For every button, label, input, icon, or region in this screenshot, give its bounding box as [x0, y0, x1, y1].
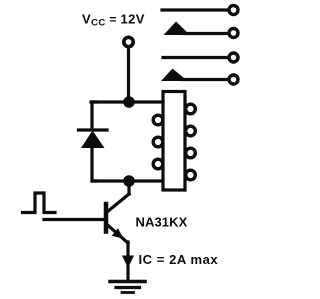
wire VCC terminal to top node — [127, 48, 130, 101]
current direction arrow IC — [122, 256, 134, 269]
relay coil K1 body — [163, 92, 185, 191]
wire diode branch upper — [92, 102, 96, 128]
ground bar 1 — [110, 280, 145, 284]
contact set 1 fixed contact wire — [162, 8, 228, 11]
transistor Q1 base bar — [104, 204, 109, 232]
wire top rail — [91, 100, 163, 103]
wire base input — [44, 218, 104, 221]
transistor Q1 emitter — [108, 225, 129, 243]
wire bottom rail — [92, 179, 162, 182]
junction bottom node — [123, 175, 135, 187]
transistor Q1 collector — [107, 194, 129, 212]
VCC terminal — [124, 37, 133, 46]
relay coil K1 loop right 4 — [186, 170, 196, 180]
diode D1 cathode bar — [79, 128, 108, 131]
relay coil K1 loop right 1 — [186, 104, 196, 114]
input pulse symbol — [23, 193, 56, 213]
contact set 2 fixed terminal — [229, 53, 238, 62]
relay coil K1 loop left 2 — [153, 137, 163, 147]
wire collector stub — [127, 184, 130, 194]
relay coil K1 loop right 3 — [186, 148, 196, 158]
junction top node — [123, 96, 135, 108]
contact set 1 armature wire — [184, 32, 228, 35]
contact set 1 fixed terminal — [229, 6, 238, 15]
diode D1 anode triangle — [81, 131, 105, 149]
contact set 2 armature triangle — [161, 69, 188, 82]
svg-text:NA31KX: NA31KX — [136, 215, 188, 230]
contact set 2 armature terminal — [229, 75, 238, 84]
relay coil K1 loop right 2 — [186, 126, 196, 136]
svg-text:IC = 2A max: IC = 2A max — [139, 252, 219, 267]
relay coil K1 loop left 1 — [153, 115, 163, 125]
ground bar 2 — [116, 286, 140, 289]
wire to ground — [126, 265, 129, 281]
contact set 1 armature triangle — [164, 22, 191, 36]
wire diode branch lower — [92, 147, 96, 181]
transistor Q1 emitter arrow — [112, 228, 124, 239]
contact set 1 armature terminal — [229, 29, 238, 38]
contact set 2 armature wire — [181, 78, 228, 81]
relay coil K1 loop left 3 — [153, 159, 163, 169]
contact set 2 fixed contact wire — [163, 56, 228, 59]
wire emitter down — [126, 242, 129, 257]
ground bar 3 — [122, 291, 134, 294]
